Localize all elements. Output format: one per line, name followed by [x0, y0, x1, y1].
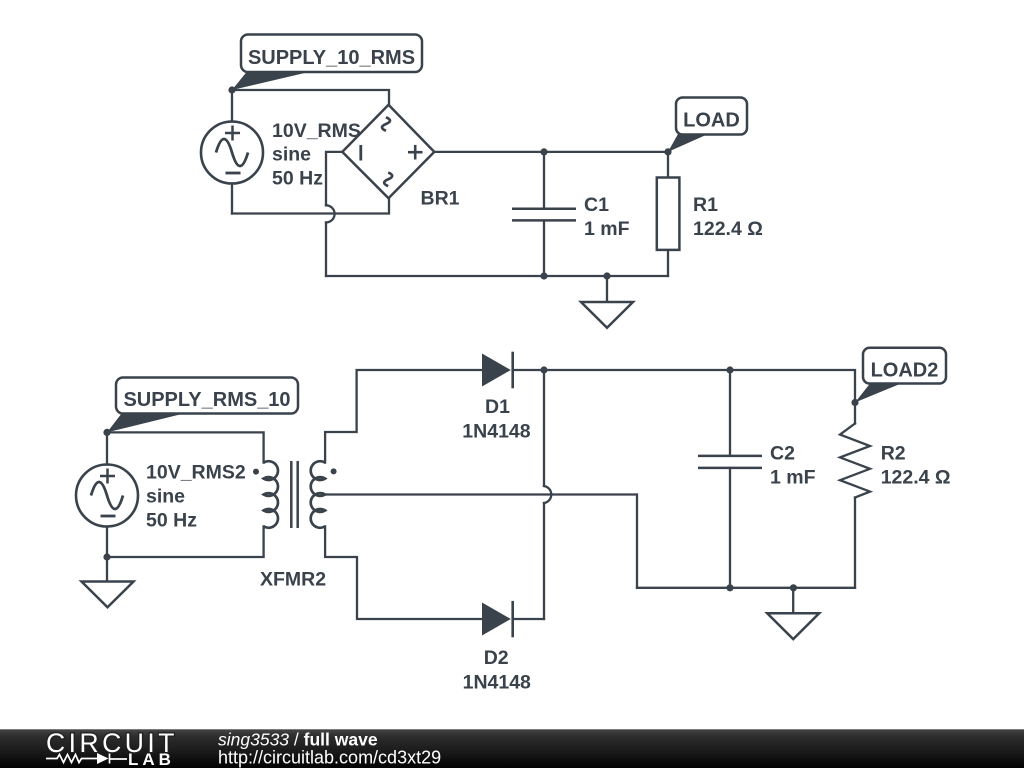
- svg-text:R2: R2: [881, 443, 906, 465]
- svg-text:10V_RMS: 10V_RMS: [272, 120, 361, 142]
- svg-text:C1: C1: [584, 194, 609, 216]
- svg-text:1 mF: 1 mF: [770, 467, 816, 489]
- svg-text:D1: D1: [485, 396, 510, 418]
- svg-text:122.4 Ω: 122.4 Ω: [881, 467, 951, 489]
- svg-text:LOAD: LOAD: [683, 110, 740, 132]
- svg-text:BR1: BR1: [421, 188, 460, 210]
- svg-text:50 Hz: 50 Hz: [146, 509, 197, 531]
- svg-text:SUPPLY_RMS_10: SUPPLY_RMS_10: [123, 389, 290, 411]
- svg-text:LAB: LAB: [128, 750, 175, 768]
- svg-text:sing3533 / full wave: sing3533 / full wave: [218, 729, 378, 749]
- svg-text:R1: R1: [693, 194, 718, 216]
- svg-text:LOAD2: LOAD2: [871, 359, 939, 381]
- svg-text:XFMR2: XFMR2: [260, 569, 326, 591]
- svg-text:122.4 Ω: 122.4 Ω: [693, 218, 763, 240]
- svg-text:1N4148: 1N4148: [462, 421, 530, 443]
- svg-text:1N4148: 1N4148: [463, 671, 531, 693]
- svg-text:SUPPLY_10_RMS: SUPPLY_10_RMS: [248, 47, 415, 69]
- svg-text:D2: D2: [484, 647, 509, 669]
- svg-text:1 mF: 1 mF: [584, 218, 630, 240]
- svg-text:10V_RMS2: 10V_RMS2: [146, 461, 246, 483]
- svg-text:sine: sine: [146, 485, 185, 507]
- svg-text:50 Hz: 50 Hz: [272, 168, 323, 190]
- svg-text:sine: sine: [272, 144, 311, 166]
- svg-text:C2: C2: [770, 443, 795, 465]
- svg-text:http://circuitlab.com/cd3xt29: http://circuitlab.com/cd3xt29: [218, 748, 441, 768]
